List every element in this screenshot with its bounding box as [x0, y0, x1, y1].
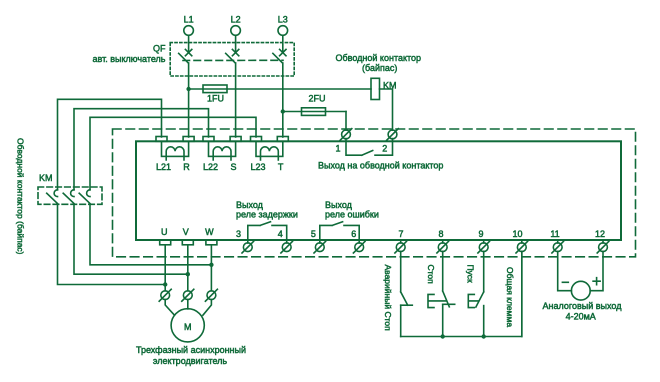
svg-text:2: 2 — [382, 144, 387, 154]
contactor coil KM — [371, 78, 380, 99]
svg-text:Выход на обводной контактор: Выход на обводной контактор — [318, 161, 443, 171]
wire analog output to terminal 12 — [590, 251, 603, 290]
svg-text:KM: KM — [39, 173, 53, 183]
svg-text:2FU: 2FU — [308, 94, 325, 104]
svg-text:L1: L1 — [184, 15, 194, 25]
svg-text:реле задержки: реле задержки — [236, 210, 298, 220]
terminal 11 — [552, 240, 564, 253]
breaker linkage dashed — [183, 59, 283, 61]
breaker pole 3 contact cross — [280, 49, 286, 55]
svg-text:5: 5 — [311, 229, 316, 239]
svg-text:Выход: Выход — [236, 200, 264, 210]
junction dot bypass-W — [209, 263, 213, 267]
phase 1 coil arcs — [166, 147, 184, 160]
wire L2 phase down to terminal S — [235, 63, 237, 137]
svg-text:3: 3 — [236, 229, 241, 239]
svg-text:L23: L23 — [250, 162, 265, 172]
svg-text:7: 7 — [398, 229, 403, 239]
svg-text:Стоп: Стоп — [426, 265, 436, 285]
junction dot stop button — [441, 334, 445, 338]
terminal V pad — [182, 240, 193, 245]
bypass wire 3 bottom to W — [90, 204, 211, 264]
terminal 10 — [516, 240, 528, 253]
contactor KM dashed enclosure — [38, 187, 102, 204]
wire L2 to breaker — [235, 35, 237, 51]
wire terminal 8 down — [442, 251, 444, 291]
bypass wire 2 bottom to V — [74, 204, 188, 274]
wire start button down — [483, 306, 485, 337]
wire 2FU to terminal 1 — [345, 112, 347, 131]
svg-text:S: S — [230, 162, 236, 172]
svg-text:L21: L21 — [156, 162, 171, 172]
dashed border of control section — [113, 129, 636, 257]
svg-text:Аналоговый выход: Аналоговый выход — [543, 301, 623, 311]
junction dot bypass-V — [186, 272, 190, 276]
KM contact 3 blade — [79, 193, 90, 203]
junction dot L1 / 1FU bus — [186, 87, 190, 91]
junction dot L3 / 2FU bus — [281, 109, 285, 113]
terminal 1 — [340, 129, 352, 142]
relay contact 3-4 — [248, 222, 287, 240]
emergency stop NC seat — [401, 304, 413, 306]
terminal 4 — [281, 240, 293, 253]
analog output meter — [571, 281, 590, 300]
svg-text:реле ошибки: реле ошибки — [325, 210, 379, 220]
wire 2FU bus — [283, 111, 346, 113]
start button NO blade — [476, 292, 484, 307]
svg-text:9: 9 — [478, 229, 483, 239]
svg-text:QF: QF — [153, 44, 166, 54]
svg-text:1FU: 1FU — [207, 94, 224, 104]
KM contact 3 fixed hook — [87, 190, 90, 197]
breaker pole 2 contact cross — [232, 49, 238, 55]
relay contact 5-6 — [320, 222, 359, 240]
wire KM coil to terminal 2 — [380, 89, 393, 130]
wire L3 phase down to terminal T — [282, 63, 284, 137]
svg-text:Пуск: Пуск — [466, 265, 476, 284]
bypass feeder wire 3 top — [90, 117, 256, 190]
terminal 8 — [437, 240, 449, 253]
motor terminal W — [205, 289, 217, 301]
svg-text:L22: L22 — [203, 162, 218, 172]
svg-text:8: 8 — [438, 229, 443, 239]
phase 1 thyristor cell box — [162, 141, 189, 156]
stop button NC seat — [443, 303, 455, 305]
svg-text:M: M — [184, 322, 192, 332]
wire L1 to breaker — [188, 35, 190, 51]
minus sign — [562, 281, 568, 283]
phase 3 thyristor cell box — [256, 141, 283, 156]
svg-text:электродвигатель: электродвигатель — [153, 356, 228, 366]
wire terminal 10 down — [521, 251, 523, 336]
breaker pole 1 contact cross — [185, 49, 191, 55]
svg-text:R: R — [183, 162, 190, 172]
wire motor W lead — [203, 300, 212, 316]
motor terminal V — [182, 289, 194, 301]
terminal L2 — [231, 26, 241, 36]
svg-text:Обводной контактор: Обводной контактор — [336, 53, 422, 63]
terminal 3 — [242, 240, 254, 253]
start button actuator — [468, 294, 478, 307]
soft starter main box — [136, 141, 621, 240]
junction dot bypass-U — [163, 282, 167, 286]
motor M1 — [171, 309, 204, 342]
svg-text:Обводной контактор (байпас): Обводной контактор (байпас) — [16, 138, 26, 255]
svg-text:V: V — [183, 227, 189, 237]
wire emergency stop down — [400, 305, 402, 336]
KM contact 2 fixed hook — [71, 190, 74, 197]
wire terminal 11 to analog output — [558, 251, 572, 290]
svg-text:4: 4 — [278, 229, 283, 239]
terminal R pad — [183, 137, 194, 142]
svg-text:Трехфазный асинхронный: Трехфазный асинхронный — [136, 345, 246, 355]
phase 3 coil arcs — [261, 147, 279, 160]
terminal 7 — [395, 240, 407, 253]
common wire bottom — [401, 251, 522, 336]
wire terminal 7 down — [400, 251, 402, 292]
KM contact 1 blade — [47, 193, 58, 203]
wire stop button down — [442, 304, 444, 336]
svg-text:1: 1 — [335, 144, 340, 154]
KM contact 1 fixed hook — [54, 190, 57, 197]
terminal S pad — [230, 137, 241, 142]
svg-text:Общая клемма: Общая клемма — [505, 267, 515, 327]
svg-text:Выход: Выход — [325, 200, 353, 210]
breaker QF dotted enclosure — [170, 43, 294, 76]
svg-text:L3: L3 — [278, 15, 288, 25]
bypass feeder wire 2 top — [74, 109, 209, 190]
terminal 5 — [314, 240, 326, 253]
wire motor V lead — [187, 300, 189, 309]
wire motor U lead — [165, 300, 174, 316]
stop button NC blade — [443, 291, 450, 307]
wire 1FU bus to KM coil — [189, 88, 371, 90]
fuse 1FU — [203, 85, 227, 93]
breaker pole 3 blade — [273, 53, 283, 63]
wire W to motor terminal — [210, 245, 212, 291]
svg-text:L2: L2 — [231, 15, 241, 25]
breaker pole 1 blade — [179, 53, 189, 63]
svg-text:(байпас): (байпас) — [362, 63, 397, 73]
svg-text:авт. выключатель: авт. выключатель — [93, 54, 166, 64]
plus sign — [593, 278, 600, 285]
svg-text:4-20мА: 4-20мА — [566, 312, 596, 322]
wire V to motor terminal — [187, 245, 189, 291]
bypass wire 1 bottom to U — [58, 204, 166, 284]
svg-text:W: W — [205, 227, 214, 237]
svg-text:T: T — [278, 162, 284, 172]
terminal L1 — [184, 26, 194, 36]
terminal L23 pad — [251, 137, 262, 142]
svg-text:12: 12 — [595, 229, 605, 239]
junction dot start button — [482, 334, 486, 338]
terminal 2 — [387, 129, 399, 142]
wire terminal 9 down — [483, 251, 485, 292]
terminal 12 — [597, 240, 609, 253]
svg-text:Аварийный Стоп: Аварийный Стоп — [383, 265, 393, 332]
svg-text:6: 6 — [351, 229, 356, 239]
wire U to motor terminal — [164, 245, 166, 291]
terminal 9 — [478, 240, 490, 253]
wire L3 to breaker — [282, 35, 284, 51]
emergency stop NC contact blade — [401, 292, 408, 305]
wire L1 phase down to terminal R — [188, 63, 190, 137]
svg-text:U: U — [161, 227, 168, 237]
fuse 2FU — [302, 108, 326, 116]
terminal T pad — [277, 137, 288, 142]
terminal W pad — [206, 240, 217, 245]
terminal U pad — [160, 240, 171, 245]
stop button actuator — [428, 294, 446, 307]
terminal L3 — [278, 26, 288, 36]
phase 2 coil arcs — [213, 147, 231, 160]
terminal L21 pad — [156, 137, 167, 142]
breaker pole 2 blade — [226, 53, 236, 63]
relay contact 1-2 — [346, 141, 393, 155]
bypass feeder wire 1 top — [58, 99, 162, 190]
phase 2 thyristor cell box — [209, 141, 236, 156]
svg-text:11: 11 — [550, 229, 559, 239]
terminal L22 pad — [203, 137, 214, 142]
svg-text:10: 10 — [512, 229, 522, 239]
KM contact 2 blade — [63, 193, 74, 203]
terminal 6 — [353, 240, 365, 253]
motor terminal U — [159, 289, 171, 301]
